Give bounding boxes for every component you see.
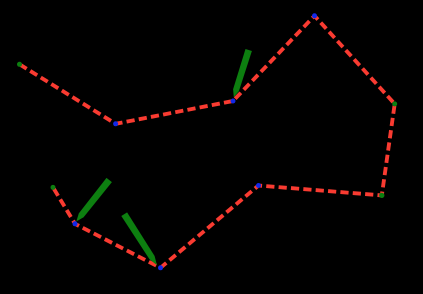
node 9 (b) [73,221,78,226]
node 2 (b) [113,121,118,126]
node 1 (g) [17,62,22,67]
node 3 (b) [231,99,236,104]
node arrow 3 [121,212,157,265]
wire tour path (red dashed) [20,16,395,268]
node 5 (g) [392,101,397,106]
node 7 (b) [256,183,261,188]
node 10 (g) [51,185,56,190]
node arrow 1 [233,49,252,97]
node 8 (b) [158,265,163,270]
node arrow 2 [76,178,112,222]
node 4 (b) [312,13,317,18]
node 6 (g) [379,193,384,198]
